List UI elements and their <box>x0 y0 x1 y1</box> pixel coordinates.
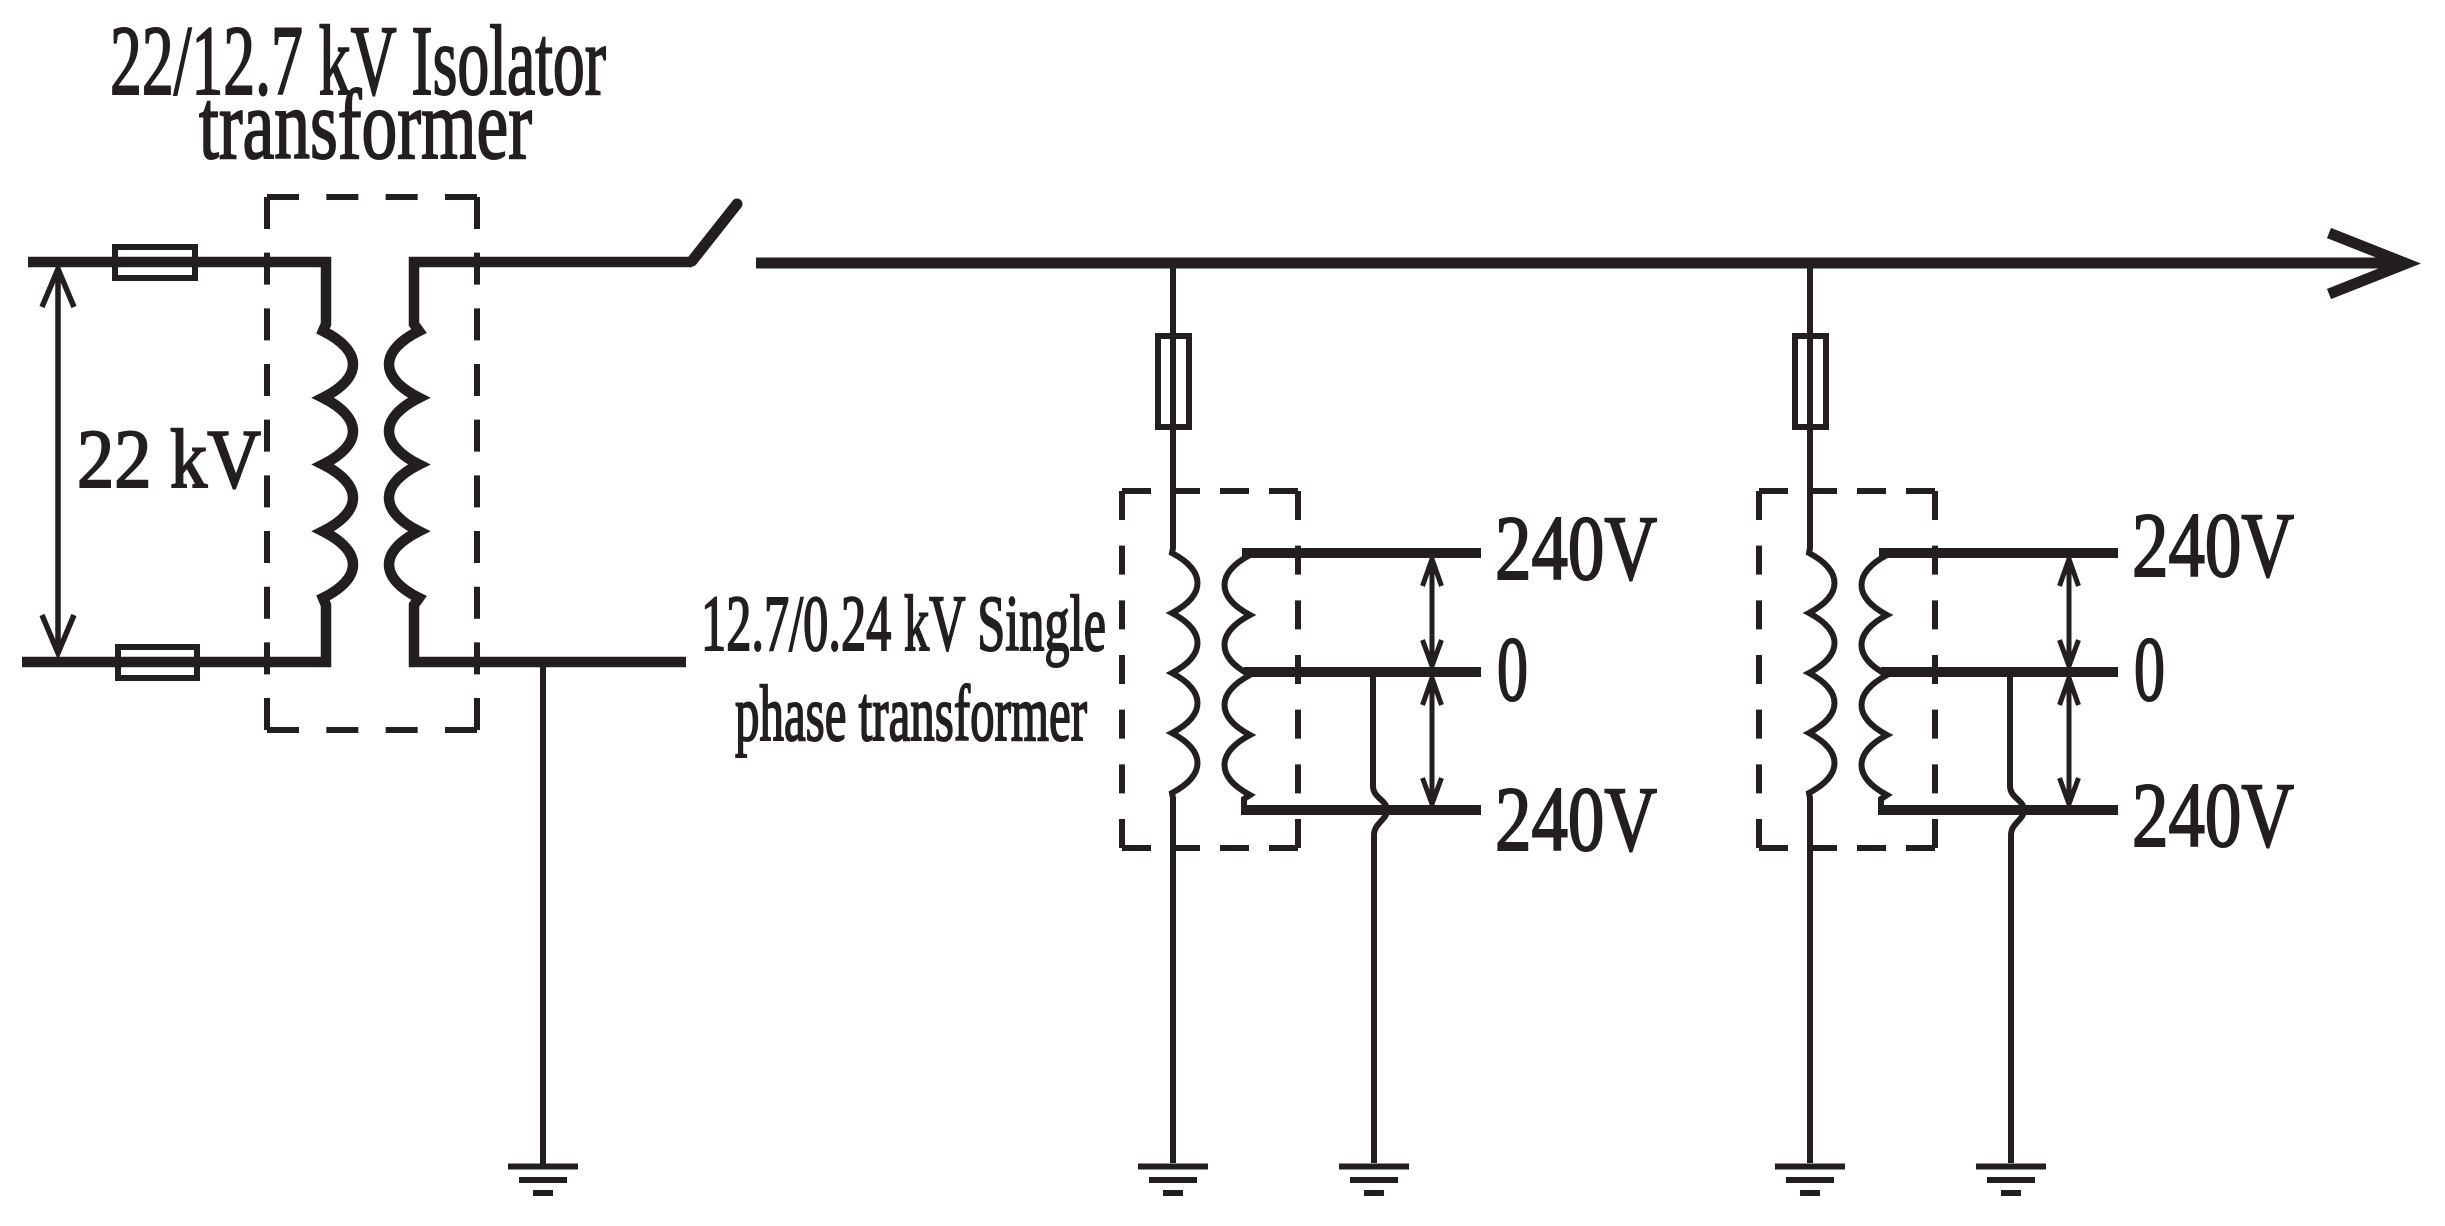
svg-text:22 kV: 22 kV <box>77 413 261 506</box>
svg-text:240V: 240V <box>1495 497 1657 599</box>
svg-text:0: 0 <box>1497 618 1528 720</box>
svg-text:240V: 240V <box>2132 764 2294 866</box>
svg-text:12.7/0.24 kV Single: 12.7/0.24 kV Single <box>701 581 1106 668</box>
svg-text:0: 0 <box>2134 618 2165 720</box>
svg-text:phase transformer: phase transformer <box>735 671 1087 758</box>
svg-text:transformer: transformer <box>199 69 532 180</box>
svg-text:240V: 240V <box>1495 768 1657 870</box>
svg-text:240V: 240V <box>2132 494 2294 596</box>
